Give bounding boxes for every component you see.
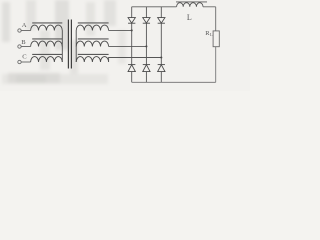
transformer T1 secondary winding a xyxy=(76,25,108,30)
diode VD2 xyxy=(158,65,165,72)
wire xyxy=(203,6,216,8)
diode VD5 xyxy=(158,18,165,24)
paper background xyxy=(0,0,250,91)
transformer T1 primary winding C xyxy=(31,57,63,62)
paper texture streaks xyxy=(2,0,126,84)
node B terminal xyxy=(18,45,21,48)
svg-text:B: B xyxy=(21,39,26,46)
transformer T1 primary winding A xyxy=(31,25,63,30)
node A terminal xyxy=(18,29,21,32)
svg-text:A: A xyxy=(22,22,27,29)
inductor L xyxy=(177,3,203,7)
bridge leg 1 wire xyxy=(131,7,133,83)
transformer T1 secondary winding b xyxy=(76,41,108,46)
bleed-through smudge bottom left xyxy=(2,74,108,84)
wire right drop xyxy=(215,7,217,31)
svg-text:L: L xyxy=(210,32,213,37)
wire phase b to bridge xyxy=(109,45,147,47)
wire positive rail xyxy=(132,6,177,8)
node C terminal xyxy=(18,60,21,63)
wire phase c to bridge xyxy=(109,58,162,63)
svg-text:C: C xyxy=(22,53,27,60)
wire xyxy=(215,47,217,83)
transformer core xyxy=(67,20,69,69)
inductor core bar xyxy=(176,1,207,3)
node b junction dot xyxy=(145,45,147,47)
wire xyxy=(21,30,30,32)
diode VD1 xyxy=(128,18,135,24)
transformer T1 secondary winding c xyxy=(76,57,108,62)
wire xyxy=(21,61,30,63)
diode VD4 xyxy=(128,65,135,72)
wire negative rail xyxy=(132,81,216,83)
wire xyxy=(21,46,30,48)
node c junction dot xyxy=(160,56,162,58)
secondary star bus wire xyxy=(75,31,77,63)
diode VD6 xyxy=(143,65,150,72)
primary star bus wire xyxy=(61,31,63,63)
resistor RL body xyxy=(213,31,219,47)
node a junction dot xyxy=(131,29,133,31)
transformer T1 primary winding B xyxy=(31,41,63,46)
bridge leg 3 wire xyxy=(160,7,162,83)
wire phase a to bridge xyxy=(109,29,132,31)
diode VD3 xyxy=(143,18,150,24)
bridge leg 2 wire xyxy=(145,7,147,83)
svg-text:L: L xyxy=(187,13,192,22)
